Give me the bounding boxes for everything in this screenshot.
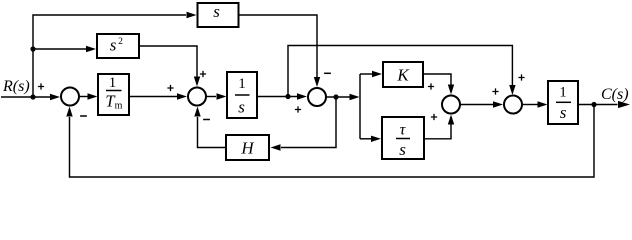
svg-text:1: 1	[238, 76, 246, 92]
svg-text:K: K	[396, 66, 410, 85]
svg-text:τ: τ	[400, 122, 407, 139]
svg-text:R(s): R(s)	[2, 78, 30, 95]
svg-text:C(s): C(s)	[601, 86, 629, 103]
svg-text:H: H	[240, 139, 255, 158]
svg-text:1: 1	[559, 85, 567, 101]
svg-text:s: s	[399, 140, 406, 159]
svg-text:m: m	[115, 101, 123, 112]
svg-text:s: s	[238, 98, 245, 117]
svg-text:s: s	[213, 2, 220, 21]
svg-text:1: 1	[109, 75, 117, 91]
svg-text:s: s	[110, 36, 117, 55]
svg-text:2: 2	[118, 37, 123, 47]
svg-text:s: s	[560, 103, 567, 122]
